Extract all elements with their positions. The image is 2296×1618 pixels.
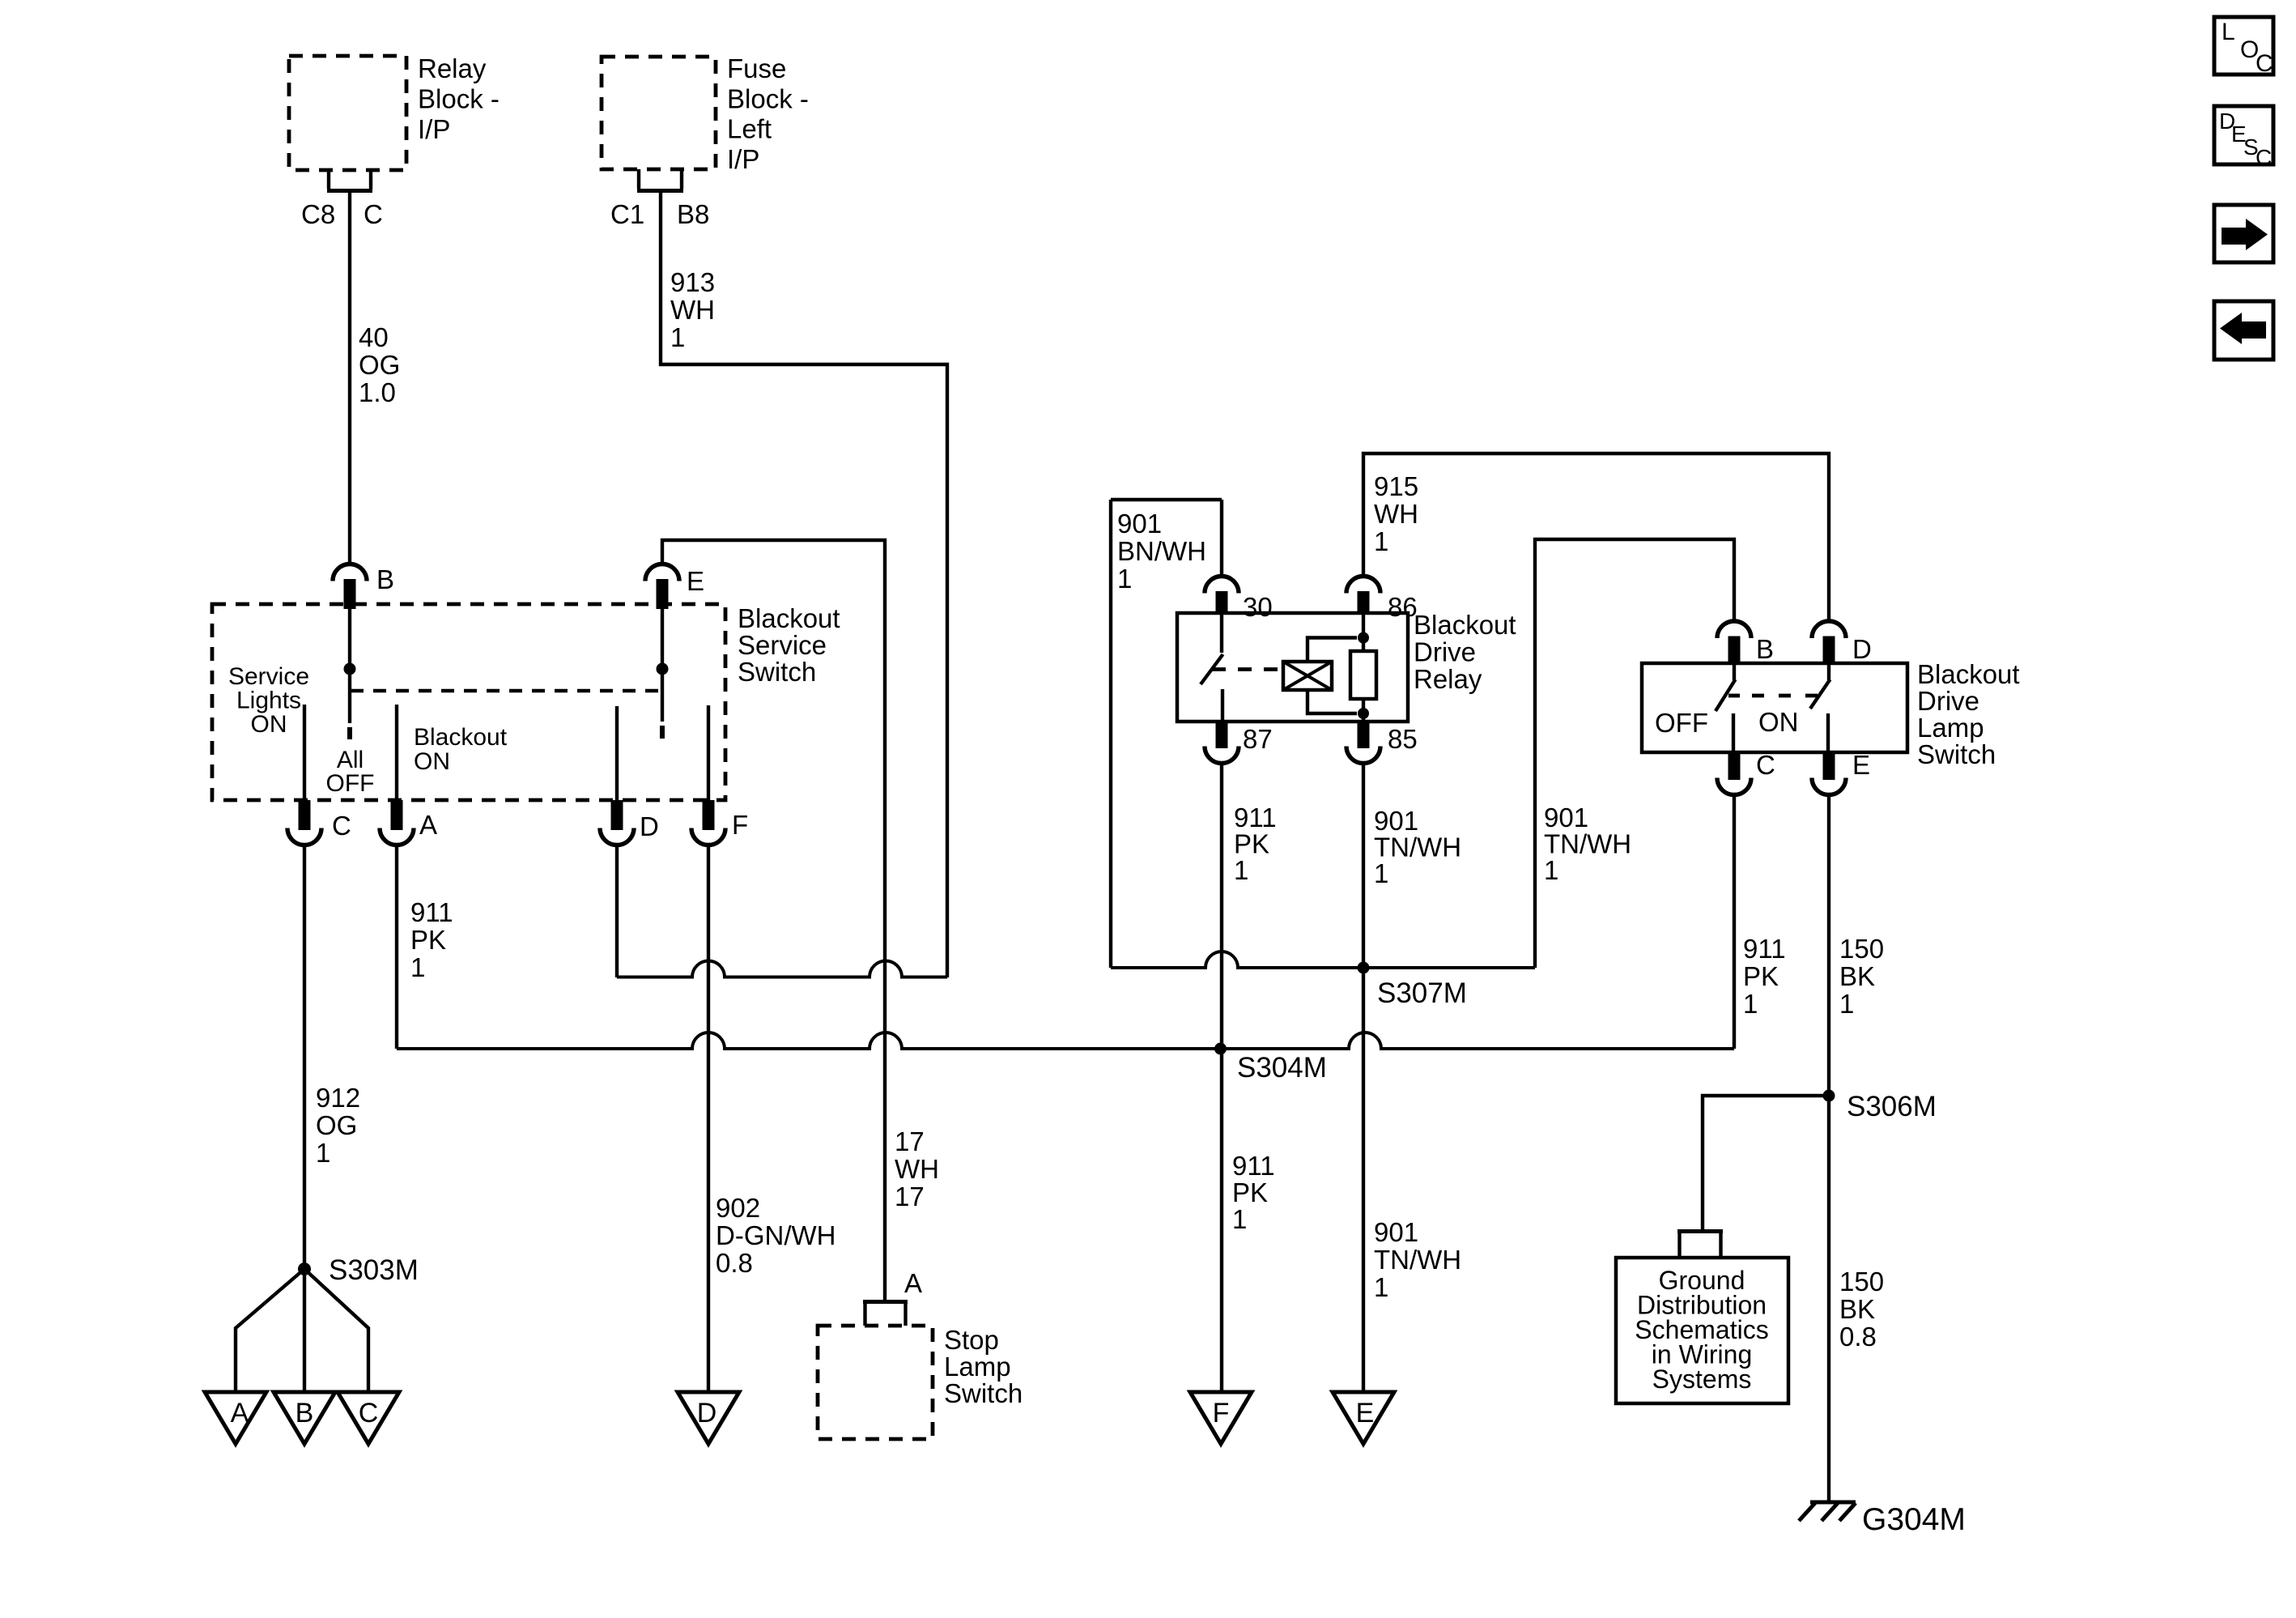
svg-text:A: A	[419, 810, 437, 840]
svg-text:S307M: S307M	[1377, 977, 1467, 1009]
svg-text:ON: ON	[1758, 707, 1799, 737]
svg-text:S306M: S306M	[1847, 1091, 1937, 1122]
svg-text:S304M: S304M	[1237, 1052, 1327, 1084]
svg-text:E: E	[1852, 750, 1870, 780]
svg-text:B: B	[376, 564, 394, 594]
svg-text:C: C	[332, 811, 351, 841]
svg-text:C: C	[2256, 50, 2273, 77]
svg-text:B: B	[1756, 634, 1774, 664]
svg-text:C: C	[2256, 145, 2272, 170]
svg-text:C1: C1	[610, 199, 644, 229]
svg-text:C: C	[359, 1398, 379, 1429]
svg-text:L: L	[2222, 19, 2235, 45]
svg-text:85: 85	[1388, 724, 1418, 754]
svg-text:A: A	[904, 1268, 922, 1298]
svg-text:F: F	[1213, 1398, 1230, 1429]
svg-text:G304M: G304M	[1862, 1502, 1966, 1537]
svg-text:E: E	[1356, 1398, 1375, 1429]
svg-text:E: E	[687, 566, 704, 596]
svg-text:D: D	[1852, 634, 1872, 664]
svg-text:C: C	[1756, 750, 1775, 780]
svg-text:D: D	[640, 811, 659, 841]
svg-text:F: F	[732, 810, 748, 840]
svg-text:B: B	[296, 1398, 314, 1429]
svg-text:30: 30	[1243, 592, 1273, 622]
svg-text:B8: B8	[677, 199, 709, 229]
svg-text:A: A	[231, 1398, 249, 1429]
svg-text:S303M: S303M	[329, 1254, 419, 1286]
svg-text:C: C	[364, 199, 383, 229]
svg-text:C8: C8	[301, 199, 335, 229]
svg-text:87: 87	[1243, 724, 1273, 754]
svg-text:OFF: OFF	[1655, 708, 1708, 738]
svg-text:D: D	[697, 1398, 717, 1429]
